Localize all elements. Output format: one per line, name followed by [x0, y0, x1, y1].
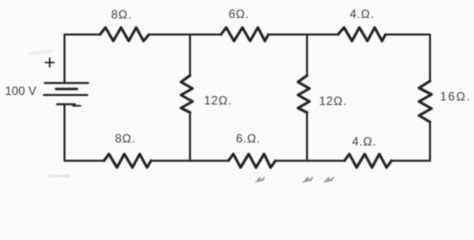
- svg-text:12Ω.: 12Ω.: [319, 94, 347, 108]
- faint smudge top left: [28, 51, 52, 54]
- stray mark 1: [256, 177, 265, 182]
- svg-text:100 V: 100 V: [5, 84, 36, 98]
- resistor R2 6ohm top: [221, 28, 268, 42]
- wire right lower: [429, 122, 431, 161]
- svg-text:8Ω.: 8Ω.: [115, 132, 136, 146]
- wire top between node A span and R3: [268, 34, 338, 36]
- svg-text:16Ω.: 16Ω.: [440, 90, 472, 104]
- svg-text:6.Ω.: 6.Ω.: [236, 132, 261, 146]
- battery V1 plate long top: [45, 82, 88, 84]
- wire bottom between R6 and node A: [151, 160, 229, 162]
- wire top between R1 and node A: [149, 34, 221, 36]
- battery V1 plate short mid: [56, 88, 77, 90]
- wire bottom between node B and R9: [276, 160, 345, 162]
- wire node A lower: [189, 113, 191, 161]
- wire node B lower: [306, 113, 308, 161]
- svg-text:4.Ω.: 4.Ω.: [352, 135, 377, 149]
- svg-text:6Ω.: 6Ω.: [229, 7, 250, 21]
- resistor R8 16ohm right: [419, 81, 432, 122]
- battery V1 plate long lower: [44, 94, 88, 96]
- wire top left: [65, 35, 101, 84]
- svg-text:12Ω.: 12Ω.: [204, 94, 232, 108]
- resistor R7 6ohm bottom: [229, 154, 276, 168]
- resistor R9 4ohm bottom: [345, 154, 392, 168]
- wire node B upper: [306, 35, 308, 76]
- wire top right corner: [386, 35, 431, 82]
- resistor R4 12ohm branch A: [181, 76, 193, 113]
- battery minus sign: [73, 105, 81, 107]
- faint smudge near battery foot: [49, 175, 70, 178]
- resistor R5 12ohm branch B: [298, 76, 310, 113]
- resistor R1 8ohm top: [100, 28, 149, 42]
- svg-text:4.Ω.: 4.Ω.: [350, 7, 375, 21]
- battery V1 plate short bottom: [57, 103, 75, 105]
- resistor R3 4ohm top: [338, 28, 386, 42]
- stray mark 2: [304, 177, 314, 182]
- stray mark 3: [325, 177, 335, 182]
- wire node A upper: [189, 35, 191, 76]
- battery plus sign: [46, 58, 55, 66]
- svg-text:8Ω.: 8Ω.: [111, 7, 132, 21]
- wire bottom left: [65, 104, 105, 160]
- resistor R6 8ohm bottom: [104, 154, 151, 168]
- wire bottom right: [392, 160, 431, 162]
